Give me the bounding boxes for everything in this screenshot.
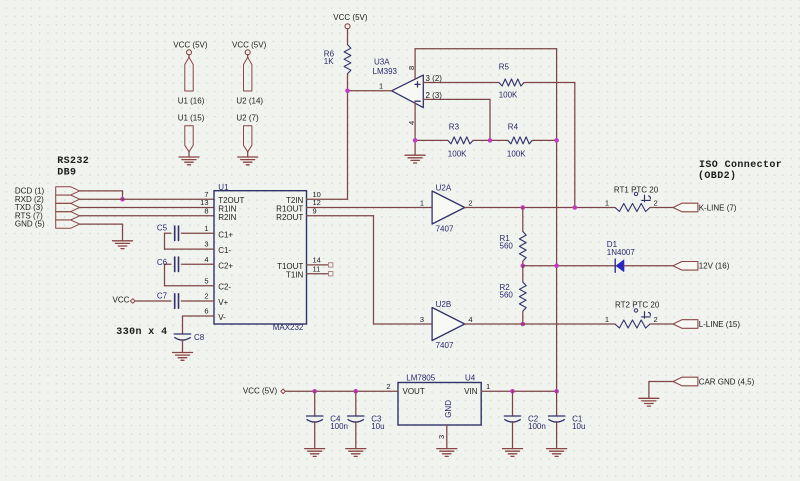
- svg-text:U1 (15): U1 (15): [178, 114, 205, 123]
- svg-text:R3: R3: [449, 122, 460, 131]
- svg-text:2: 2: [468, 198, 472, 207]
- svg-text:LM393: LM393: [373, 67, 398, 76]
- svg-text:L-LINE (15): L-LINE (15): [699, 320, 741, 329]
- svg-text:C1-: C1-: [218, 246, 231, 255]
- svg-text:330n x 4: 330n x 4: [116, 327, 167, 338]
- svg-text:3: 3: [420, 315, 424, 324]
- svg-text:1: 1: [486, 382, 490, 391]
- svg-text:7407: 7407: [436, 225, 454, 234]
- svg-text:3 (2): 3 (2): [426, 74, 443, 83]
- svg-text:U4: U4: [465, 374, 476, 383]
- svg-text:VCC (5V): VCC (5V): [173, 40, 208, 49]
- svg-text:U2 (14): U2 (14): [236, 96, 263, 105]
- svg-text:MAX232: MAX232: [273, 323, 304, 332]
- svg-text:2: 2: [204, 292, 208, 301]
- svg-text:R5: R5: [499, 63, 510, 72]
- svg-text:100n: 100n: [330, 422, 348, 431]
- svg-text:2: 2: [654, 198, 658, 207]
- svg-text:10u: 10u: [572, 422, 585, 431]
- svg-text:2 (3): 2 (3): [426, 91, 443, 100]
- svg-text:T1IN: T1IN: [286, 271, 304, 280]
- svg-text:ISO Connector: ISO Connector: [699, 160, 782, 171]
- svg-text:1: 1: [204, 224, 208, 233]
- svg-text:C5: C5: [157, 224, 168, 233]
- svg-text:C2-: C2-: [218, 283, 231, 292]
- svg-text:R4: R4: [508, 122, 519, 131]
- svg-text:VCC (5V): VCC (5V): [232, 40, 267, 49]
- svg-text:U3A: U3A: [374, 57, 390, 66]
- svg-text:1: 1: [605, 198, 609, 207]
- svg-text:1N4007: 1N4007: [607, 248, 636, 257]
- svg-text:12V (16): 12V (16): [699, 262, 730, 271]
- svg-text:VCC (5V): VCC (5V): [333, 13, 368, 22]
- svg-text:C2+: C2+: [218, 261, 233, 270]
- svg-text:RS232: RS232: [57, 156, 89, 167]
- svg-text:T1OUT: T1OUT: [277, 262, 303, 271]
- svg-text:2: 2: [386, 382, 390, 391]
- svg-text:U2B: U2B: [436, 300, 452, 309]
- svg-text:560: 560: [500, 242, 514, 251]
- svg-text:3: 3: [204, 240, 208, 249]
- svg-text:C6: C6: [157, 258, 168, 267]
- svg-text:VCC (5V): VCC (5V): [243, 387, 278, 396]
- svg-text:100K: 100K: [507, 150, 526, 159]
- svg-text:K-LINE (7): K-LINE (7): [699, 203, 737, 212]
- svg-text:U1 (16): U1 (16): [178, 96, 205, 105]
- svg-text:7407: 7407: [436, 341, 454, 350]
- svg-text:CAR GND (4,5): CAR GND (4,5): [699, 377, 755, 386]
- svg-text:U1: U1: [218, 183, 229, 192]
- svg-text:GND: GND: [444, 400, 453, 418]
- svg-text:100n: 100n: [528, 422, 546, 431]
- svg-text:C8: C8: [194, 333, 205, 342]
- svg-text:(OBD2): (OBD2): [698, 170, 736, 182]
- svg-text:100K: 100K: [448, 150, 467, 159]
- svg-text:6: 6: [204, 307, 208, 316]
- svg-text:3: 3: [437, 435, 446, 439]
- svg-text:C7: C7: [157, 292, 168, 301]
- svg-text:VCC: VCC: [113, 296, 130, 305]
- svg-text:1: 1: [605, 315, 609, 324]
- svg-text:1: 1: [420, 198, 424, 207]
- svg-text:U2A: U2A: [436, 184, 452, 193]
- svg-text:8: 8: [407, 66, 416, 70]
- svg-text:V+: V+: [218, 298, 228, 307]
- svg-text:11: 11: [313, 264, 321, 273]
- svg-text:4: 4: [407, 121, 416, 125]
- svg-text:C1+: C1+: [218, 230, 233, 239]
- svg-text:R2IN: R2IN: [218, 213, 236, 222]
- svg-text:1: 1: [379, 82, 383, 91]
- svg-text:8: 8: [204, 206, 208, 215]
- svg-text:V-: V-: [218, 313, 226, 322]
- svg-text:DB9: DB9: [57, 167, 76, 178]
- svg-text:LM7805: LM7805: [406, 374, 435, 383]
- svg-text:RT2 PTC 20: RT2 PTC 20: [615, 301, 660, 310]
- svg-text:1K: 1K: [324, 57, 334, 66]
- svg-text:VIN: VIN: [464, 387, 478, 396]
- svg-text:RT1 PTC 20: RT1 PTC 20: [614, 186, 659, 195]
- svg-text:5: 5: [204, 276, 208, 285]
- svg-text:U2 (7): U2 (7): [236, 114, 259, 123]
- svg-text:14: 14: [313, 256, 321, 265]
- svg-text:GND (5): GND (5): [15, 220, 45, 229]
- svg-text:4: 4: [468, 315, 472, 324]
- svg-text:100K: 100K: [499, 91, 518, 100]
- svg-text:VOUT: VOUT: [403, 387, 425, 396]
- svg-text:2: 2: [654, 315, 658, 324]
- svg-text:4: 4: [204, 255, 208, 264]
- svg-text:R2OUT: R2OUT: [276, 213, 303, 222]
- svg-text:10u: 10u: [371, 422, 384, 431]
- svg-text:560: 560: [500, 290, 514, 299]
